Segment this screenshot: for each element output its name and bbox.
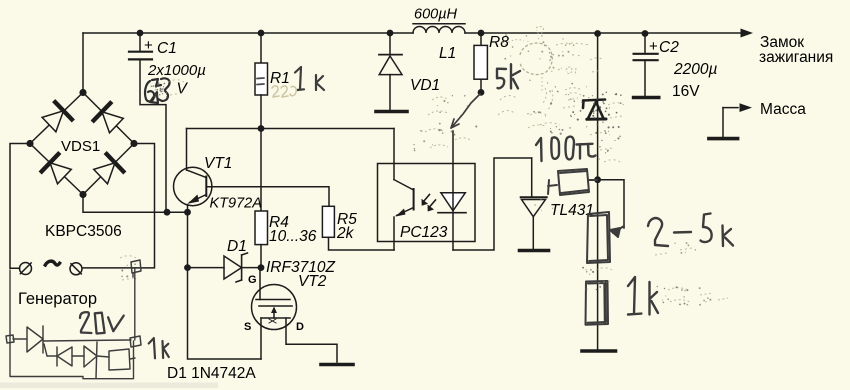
pencil speckle noise layer [120,27,728,302]
zener pencil on right rail [583,100,606,120]
optocoupler U1 PC123 box [378,164,476,242]
svg-text:KT972A: KT972A [210,196,262,212]
value label 1k handwritten near R1 [295,67,324,90]
ground TL431 [520,249,549,253]
node R1 bottom junction [258,125,265,132]
svg-text:L1: L1 [439,45,456,62]
speckles near zener right [608,103,624,118]
terminal generator right [70,263,82,275]
erased value scribble under R1 [272,86,296,97]
wire left column to source bottom [188,268,262,359]
svg-text:KBPC3506: KBPC3506 [45,223,122,240]
capacitor C2 [634,34,718,101]
wire PC123 collector lead [393,129,395,180]
generator pencil diode 3 [84,342,109,378]
svg-text:2k: 2k [336,225,355,242]
ground right rail [582,349,616,353]
capacitor C1 [129,33,206,212]
wire R1 to R4 [260,129,262,212]
wire emitter row [83,195,188,213]
svg-text:V: V [177,81,189,98]
speckles near C1 63V [168,80,184,95]
wire bridge right to generator [82,144,155,268]
transistor VT2 MOSFET [244,268,337,362]
diode VD1 [379,33,440,110]
wire VT1 base to R5 [206,187,329,206]
speckles near pot and 1k right [596,268,612,283]
node R1 top junction [258,30,265,37]
svg-text:S: S [244,321,251,333]
svg-text:VT1: VT1 [204,155,232,172]
node D1 anode junction [184,264,191,271]
svg-text:D1 1N4742A: D1 1N4742A [167,365,256,382]
pencil marks inside R1 box [257,78,264,85]
shunt regulator TL431 [521,158,594,249]
svg-text:10...36: 10...36 [269,228,317,245]
node G junction [258,264,265,271]
diode D1 zener [188,238,262,282]
diode bridge top-right [94,103,124,133]
value label 1k handwritten right [628,277,658,315]
svg-text:C1: C1 [157,40,177,57]
generator pencil terminal square [6,335,14,343]
generator pencil diode 1 [13,326,47,356]
svg-text:2x1000µ: 2x1000µ [147,62,206,79]
node bridge top [79,89,86,96]
generator pencil circuit loop [10,269,135,379]
node R8 top junction [478,30,485,37]
svg-text:VD1: VD1 [410,77,440,94]
speckles around R8 [536,27,543,34]
faint scan band bottom [0,383,218,389]
ground C2 bar [634,96,659,100]
value label 20v handwritten [80,312,124,333]
wire bridge top lead [82,33,84,93]
node C2 junction [642,30,649,37]
wire bridge left to generator [10,144,30,269]
pencil annotation layer [6,64,733,379]
node arrow to ignition lock [741,29,754,38]
wire right rail [597,34,599,349]
inductor L1 [413,7,465,63]
ground VT2 drain [321,363,353,367]
speckles near switch [425,97,448,148]
diode bridge bottom-left [42,154,72,184]
node right rail top junction [594,30,601,37]
wire emitter down to D1 anode [187,212,189,267]
node emitter junction [184,209,191,216]
generator pencil regulator box [109,349,135,370]
svg-text:600µH: 600µH [414,7,458,23]
diode bridge bottom-right [94,154,124,184]
ground VD1 bar [376,110,407,114]
wire LED cathode to TL431 [453,158,532,250]
value label 100n handwritten [536,137,596,161]
value label 2-5k handwritten [648,214,733,247]
LED light arrows [424,195,436,208]
bridge rectifier VDS1 [30,93,134,195]
pencil flag lower [130,336,141,347]
node Massa arrow [723,103,752,137]
resistor R1 [255,33,290,129]
value label 63V scribble on C1 [145,78,169,103]
node bridge left [26,140,33,147]
wire top rail [83,32,748,34]
svg-text:16V: 16V [672,83,700,100]
ground Massa bar [709,137,738,141]
node C1 top junction [137,30,144,37]
svg-text:R1: R1 [270,70,290,87]
speckles near 100n [540,123,612,150]
transistor VT1 [174,129,262,213]
svg-text:C2: C2 [659,39,679,56]
node emitter junction left [164,209,171,216]
svg-text:R8: R8 [489,34,509,51]
value label 5k handwritten near R8 [497,64,520,88]
potentiometer pencil 2-5k [587,212,624,263]
generator pencil diode 2 [47,347,84,366]
resistor R5 [322,206,394,250]
wire collector rail y=128.5 [187,128,395,130]
wire pot wiper bracket [598,180,624,228]
svg-text:G: G [248,274,257,286]
LED inside PC123 [438,131,466,250]
svg-text:D1: D1 [227,238,247,255]
pencil switch wire below R8 [451,94,480,128]
svg-text:+: + [144,37,153,54]
svg-text:зажигания: зажигания [759,49,833,66]
node bridge bottom [79,191,86,198]
pencil noise dots [121,34,711,305]
resistor R8 [474,33,509,92]
node right rail mid junction [594,176,601,183]
svg-text:2200µ: 2200µ [673,61,717,78]
svg-text:VT2: VT2 [298,273,327,290]
node R8 bottom junction [478,89,485,96]
node bridge right [130,140,137,147]
svg-text:+: + [649,38,658,55]
svg-text:PC123: PC123 [400,224,448,241]
diode bridge top-left [42,102,72,132]
pencil flag upper [131,260,141,277]
node AC tilde [45,261,59,265]
generator pencil top link [43,340,131,341]
resistor pencil 1k box on right rail [586,281,609,325]
svg-text:D: D [296,321,304,333]
svg-text:VDS1: VDS1 [61,138,100,155]
pencil box at TL431 [548,169,597,195]
node VD1 junction [387,30,394,37]
speckles near generator flag [120,256,136,280]
value label 1k handwritten bottom left [149,338,169,358]
svg-text:Масса: Масса [760,101,806,118]
resistor R4 [255,211,317,268]
svg-text:Генератор: Генератор [18,290,97,308]
terminal generator left [20,263,32,275]
pencil blob in 63V scribble [155,82,168,98]
transistor PC123 phototransistor [394,180,448,250]
